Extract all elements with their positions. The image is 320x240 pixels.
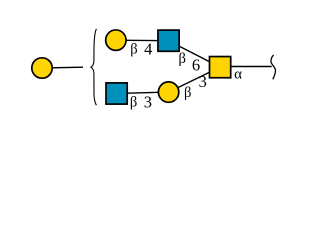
svg-text:β: β xyxy=(184,85,191,101)
svg-text:3: 3 xyxy=(144,93,152,112)
svg-text:3: 3 xyxy=(199,72,207,91)
wire Gal to bracket xyxy=(42,66,83,69)
GlcNAc residue top (blue square) xyxy=(158,30,179,51)
Gal residue (yellow circle, uncertain attachment) xyxy=(32,58,52,78)
wire Gal to GalNAc (b1-3 diagonal) xyxy=(169,67,221,92)
wire GlcNAc to Gal (bottom branch, b1-3) xyxy=(117,92,169,93)
svg-text:α: α xyxy=(234,67,242,83)
wire Gal to GlcNAc (top branch, b1-4) xyxy=(116,39,169,42)
svg-text:β: β xyxy=(130,42,137,58)
svg-text:β: β xyxy=(130,95,137,111)
GlcNAc residue bottom (blue square) xyxy=(106,83,127,104)
svg-text:4: 4 xyxy=(144,40,152,59)
Gal residue top (yellow circle) xyxy=(106,30,126,50)
wire GalNAc to reducing end xyxy=(231,66,272,68)
bracket brace xyxy=(91,29,97,105)
wire GlcNAc to GalNAc (b1-6 diagonal) xyxy=(169,41,221,67)
GalNAc residue (yellow square) xyxy=(210,57,231,78)
Gal residue bottom (yellow circle) xyxy=(158,82,178,102)
reducing-end squiggle xyxy=(271,55,276,79)
svg-text:β: β xyxy=(179,51,186,67)
